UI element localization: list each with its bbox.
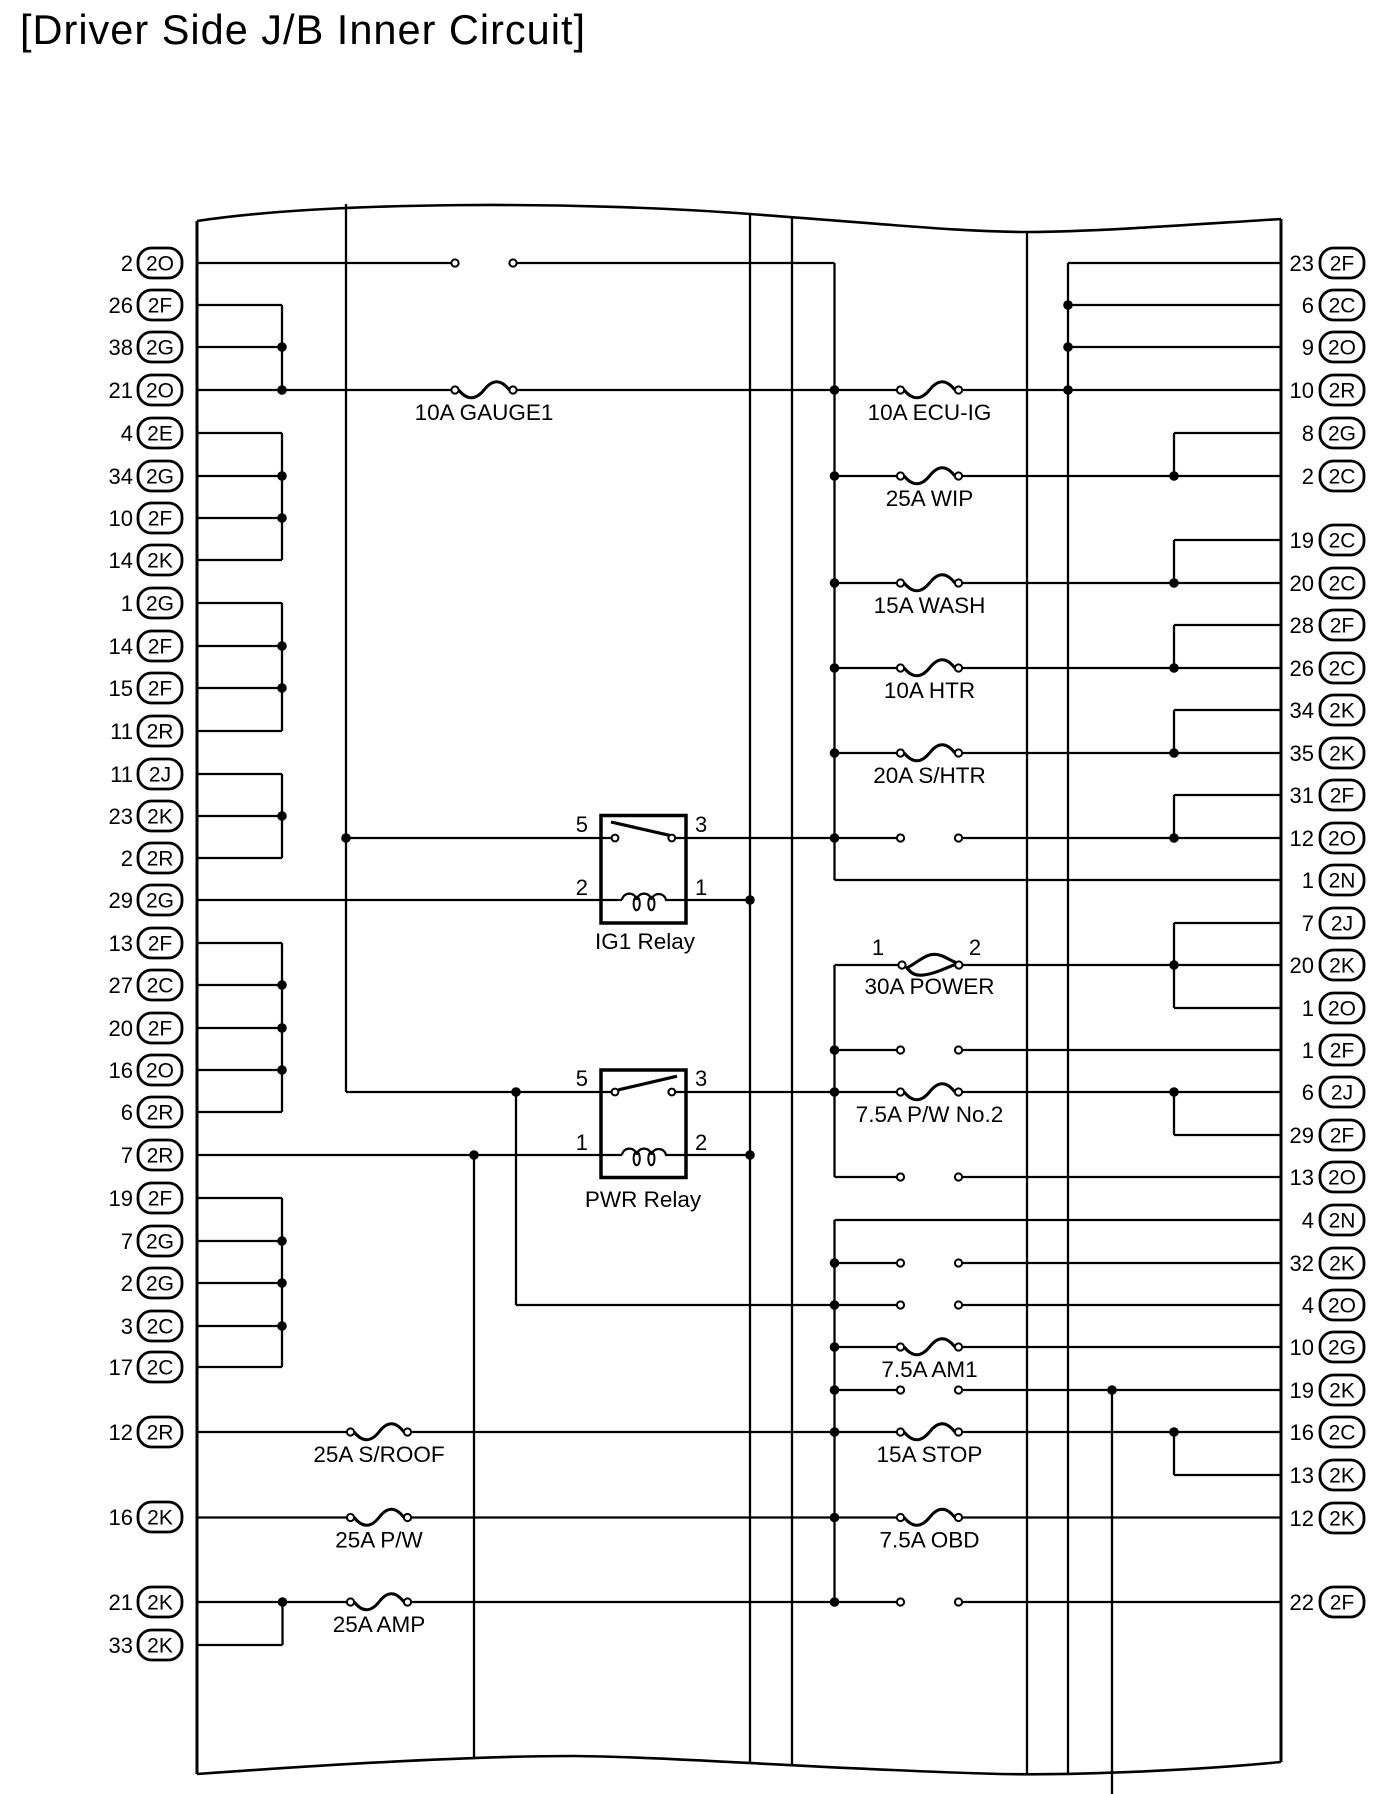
left group bracket 26-2F/38-2G/21-2O (197, 304, 282, 306)
pin 2 2G (left) (121, 1268, 182, 1298)
svg-text:2R: 2R (1329, 380, 1356, 403)
right bracket 7-2J/20-2K/1-2O (1174, 922, 1281, 924)
wire row 20A S/HTR (y753) (835, 752, 897, 754)
svg-text:2K: 2K (147, 1592, 173, 1615)
svg-text:14: 14 (109, 548, 133, 573)
pin 38 2G (left) (109, 332, 182, 362)
wire row 25A WIP (y476) (835, 475, 897, 477)
relay PWR: coil (601, 1154, 622, 1156)
svg-text:2: 2 (576, 875, 588, 900)
svg-text:2K: 2K (1329, 955, 1355, 978)
svg-text:2F: 2F (1330, 785, 1355, 808)
svg-text:1: 1 (121, 591, 133, 616)
svg-text:1: 1 (1302, 868, 1314, 893)
svg-text:2K: 2K (1329, 1508, 1355, 1531)
svg-text:19: 19 (1290, 1378, 1314, 1403)
pin 27 2C (left) (109, 970, 182, 1000)
left group bracket 21-2K/33-2K (197, 1644, 283, 1646)
pin 34 2K (right) (1290, 695, 1364, 725)
pin 2 2R (left) (121, 843, 182, 873)
pin 4 2E (left) (121, 418, 182, 448)
junction block J/B outline: right edge (1280, 219, 1283, 1762)
svg-text:2C: 2C (1329, 466, 1356, 489)
pin 29 2G (left) (109, 885, 182, 915)
wire row 4-2N (y1220) (835, 1219, 1282, 1221)
svg-text:2G: 2G (146, 337, 174, 360)
svg-text:12: 12 (109, 1420, 133, 1445)
svg-text:30A POWER: 30A POWER (864, 974, 994, 999)
vertical wire (x=516, PWR relay pin5 row down to 4 2O row) (515, 1092, 517, 1305)
svg-text:20: 20 (1290, 571, 1314, 596)
svg-text:1: 1 (695, 875, 707, 900)
pin 9 2O (right) (1302, 332, 1364, 362)
left group bracket 13-2F/27-2C/20-2F/16-2O/6-2R (197, 942, 282, 944)
pin 13 2K (right) (1290, 1460, 1364, 1490)
svg-text:2N: 2N (1329, 870, 1356, 893)
svg-text:2F: 2F (1330, 1125, 1355, 1148)
svg-text:2J: 2J (1331, 1082, 1353, 1105)
svg-text:34: 34 (109, 464, 133, 489)
svg-text:7: 7 (121, 1143, 133, 1168)
vertical bus line E (x=1068, pin 23 2F row to bottom edge) (1067, 263, 1069, 1774)
wire row pair to 1-2F (y1050) (835, 1049, 897, 1051)
svg-text:8: 8 (1302, 421, 1314, 446)
svg-text:16: 16 (109, 1505, 133, 1530)
svg-text:2R: 2R (147, 1422, 174, 1445)
svg-text:2K: 2K (147, 1635, 173, 1658)
right bracket 34-2K/35-2K (1174, 709, 1281, 711)
fuse 7.5A AM1 (y1347) (835, 1346, 897, 1348)
wire row 21-2K / 25A AMP / 22-2F (y1602) (197, 1601, 347, 1603)
pin 10 2G (right) (1290, 1332, 1364, 1362)
svg-text:16: 16 (1290, 1420, 1314, 1445)
svg-text:13: 13 (1290, 1463, 1314, 1488)
svg-text:13: 13 (1290, 1165, 1314, 1190)
svg-text:20A S/HTR: 20A S/HTR (873, 763, 986, 788)
pin 20 2K (right) (1290, 950, 1364, 980)
fuse 10A HTR (897, 664, 904, 671)
vertical wire (x=1112, 19 2K row down past bottom edge) (1111, 1390, 1113, 1794)
svg-text:4: 4 (1302, 1208, 1314, 1233)
vertical bus line F (x=834.5, 2 2O row to 1 2N row) (833, 263, 835, 880)
svg-text:14: 14 (109, 634, 133, 659)
svg-text:12: 12 (1290, 826, 1314, 851)
svg-text:31: 31 (1290, 783, 1314, 808)
svg-text:2K: 2K (147, 806, 173, 829)
svg-text:2F: 2F (1330, 253, 1355, 276)
svg-text:5: 5 (576, 812, 588, 837)
right bracket 28-2F/26-2C (1174, 624, 1281, 626)
pin 21 2O (left) (109, 375, 182, 405)
svg-text:38: 38 (109, 335, 133, 360)
svg-text:6: 6 (1302, 1080, 1314, 1105)
svg-text:2F: 2F (148, 1188, 173, 1211)
svg-text:2C: 2C (147, 1316, 174, 1339)
svg-text:2O: 2O (1328, 337, 1356, 360)
fuse 25A S/ROOF (347, 1428, 354, 1435)
svg-text:2F: 2F (148, 678, 173, 701)
pin 34 2G (left) (109, 461, 182, 491)
fuse 7.5A OBD (897, 1514, 904, 1521)
svg-text:25A AMP: 25A AMP (333, 1612, 426, 1637)
svg-text:2C: 2C (1329, 573, 1356, 596)
pin 13 2F (left) (109, 928, 182, 958)
wire row 4-2O (y1305) (516, 1304, 897, 1306)
svg-text:[Driver Side J/B Inner Circuit: [Driver Side J/B Inner Circuit] (20, 6, 586, 53)
svg-text:15: 15 (109, 676, 133, 701)
vertical bus line B (x=750, full height) (749, 214, 751, 1763)
pin 19 2K (right) (1290, 1375, 1364, 1405)
svg-text:2: 2 (121, 1271, 133, 1296)
wire GAUGE1 to ECU-IG (517, 389, 897, 391)
svg-text:2O: 2O (1328, 828, 1356, 851)
svg-text:IG1 Relay: IG1 Relay (595, 929, 696, 954)
wire row 2-2O (y263) with terminal pair (197, 262, 451, 264)
svg-text:2F: 2F (148, 508, 173, 531)
svg-text:25A S/ROOF: 25A S/ROOF (313, 1442, 444, 1467)
fuse 20A S/HTR (897, 749, 904, 756)
pin 1 2G (left) (121, 588, 182, 618)
pin 8 2G (right) (1302, 418, 1364, 448)
fuse 10A ECU-IG (897, 386, 904, 393)
svg-text:2G: 2G (1328, 423, 1356, 446)
pin 12 2O (right) (1290, 823, 1364, 853)
pin 11 2J (left) (110, 759, 182, 789)
pin 23 2F (right) (1290, 248, 1364, 278)
svg-text:10A HTR: 10A HTR (884, 678, 975, 703)
pin 6 2J (right) (1302, 1077, 1364, 1107)
pin 12 2K (right) (1290, 1503, 1364, 1533)
wire ECU-IG to pin 10 2R (962, 389, 1281, 391)
wire row pair to 32-2K (y1263) (835, 1262, 897, 1264)
pin 1 2N (right) (1302, 865, 1364, 895)
vertical bus line G (x=834.5, 30A POWER row to 13 2O row) (833, 965, 835, 1177)
right bracket 8-2G/2-2C (1174, 432, 1281, 434)
svg-text:10A GAUGE1: 10A GAUGE1 (415, 400, 554, 425)
pin 1 2O (right) (1302, 993, 1364, 1023)
pin 7 2J (right) (1302, 908, 1364, 938)
svg-text:2K: 2K (1329, 700, 1355, 723)
fuse 15A STOP (897, 1428, 904, 1435)
svg-text:2F: 2F (1330, 615, 1355, 638)
pin 13 2O (right) (1290, 1162, 1364, 1192)
svg-text:7.5A AM1: 7.5A AM1 (881, 1357, 977, 1382)
svg-text:26: 26 (1290, 656, 1314, 681)
svg-text:2F: 2F (148, 295, 173, 318)
vertical bus line H (x=834.5, 4 2N row to 22 2F row) (833, 1220, 835, 1602)
svg-text:11: 11 (110, 762, 133, 787)
svg-text:23: 23 (109, 804, 133, 829)
svg-text:34: 34 (1290, 698, 1314, 723)
svg-text:19: 19 (109, 1186, 133, 1211)
wire row 23-2F (y263) (1068, 262, 1281, 264)
svg-text:26: 26 (109, 293, 133, 318)
svg-text:2F: 2F (148, 1018, 173, 1041)
svg-text:2: 2 (1302, 464, 1314, 489)
svg-text:5: 5 (576, 1066, 588, 1091)
pin 17 2C (left) (109, 1352, 182, 1382)
svg-text:3: 3 (695, 1066, 707, 1091)
pin 28 2F (right) (1290, 610, 1364, 640)
svg-text:2C: 2C (1329, 295, 1356, 318)
svg-text:3: 3 (121, 1314, 133, 1339)
right bracket 16-2C/13-2K (1174, 1474, 1281, 1476)
svg-text:PWR Relay: PWR Relay (585, 1187, 702, 1212)
svg-text:2: 2 (121, 251, 133, 276)
pin 29 2F (right) (1290, 1120, 1364, 1150)
svg-text:13: 13 (109, 931, 133, 956)
pin 20 2C (right) (1290, 568, 1364, 598)
svg-text:2E: 2E (147, 423, 173, 446)
svg-text:2C: 2C (147, 975, 174, 998)
wire row 15A WASH (y583) (835, 582, 897, 584)
svg-text:29: 29 (109, 888, 133, 913)
wire row 29-2G to IG1 relay coil (y900) (197, 899, 601, 901)
svg-text:15A STOP: 15A STOP (877, 1442, 983, 1467)
wire row 16-2K / 25A P/W / 7.5A OBD (y1517.5) (197, 1516, 347, 1518)
pin 26 2C (right) (1290, 653, 1364, 683)
pin 26 2F (left) (109, 290, 182, 320)
wire row 9-2O (y347) (1068, 346, 1281, 348)
svg-text:15A WASH: 15A WASH (874, 593, 986, 618)
svg-text:2O: 2O (1328, 1167, 1356, 1190)
svg-text:2N: 2N (1329, 1210, 1356, 1233)
pin 32 2K (right) (1290, 1248, 1364, 1278)
svg-text:1: 1 (872, 935, 884, 960)
svg-text:19: 19 (1290, 528, 1314, 553)
wire row 12-2R / 25A S/ROOF / 15A STOP (y1432) (197, 1431, 347, 1433)
pin 12 2R (left) (109, 1417, 182, 1447)
pin 21 2K (left) (109, 1587, 182, 1617)
svg-text:2K: 2K (147, 550, 173, 573)
svg-text:2C: 2C (1329, 530, 1356, 553)
fuse 10A GAUGE1 (451, 386, 458, 393)
svg-text:2K: 2K (1329, 743, 1355, 766)
svg-text:2K: 2K (1329, 1380, 1355, 1403)
pin 20 2F (left) (109, 1013, 182, 1043)
pin 14 2F (left) (109, 631, 182, 661)
svg-text:2O: 2O (1328, 998, 1356, 1021)
pin 33 2K (left) (109, 1630, 182, 1660)
right bracket 19-2C/20-2C (1174, 539, 1281, 541)
svg-text:4: 4 (121, 421, 133, 446)
pin 23 2K (left) (109, 801, 182, 831)
pin 4 2O (right) (1302, 1290, 1364, 1320)
fuse 25A WIP (897, 472, 904, 479)
junction block J/B outline: wavy bottom edge (197, 1756, 1281, 1774)
svg-text:2O: 2O (146, 1060, 174, 1083)
relay IG1: switch contacts pin5-pin3 (612, 835, 619, 842)
svg-text:2G: 2G (146, 890, 174, 913)
svg-text:2: 2 (121, 846, 133, 871)
fuse 7.5A P/W No.2 (897, 1088, 904, 1095)
left group bracket 19-2F/7-2G/2-2G/3-2C/17-2C (197, 1197, 282, 1199)
pin 16 2K (left) (109, 1502, 182, 1532)
svg-text:23: 23 (1290, 251, 1314, 276)
svg-text:6: 6 (1302, 293, 1314, 318)
fuse 25A AMP (347, 1598, 354, 1605)
wire row 10A HTR (y668) (835, 667, 897, 669)
pin 19 2F (left) (109, 1183, 182, 1213)
svg-text:2R: 2R (147, 848, 174, 871)
svg-text:2R: 2R (147, 1145, 174, 1168)
left group bracket 11-2J/23-2K/2-2R (197, 773, 282, 775)
pin 6 2C (right) (1302, 290, 1364, 320)
fuse 15A WASH (897, 579, 904, 586)
svg-text:2G: 2G (146, 1231, 174, 1254)
svg-text:22: 22 (1290, 1590, 1314, 1615)
svg-text:10: 10 (1290, 1335, 1314, 1360)
svg-text:2O: 2O (146, 253, 174, 276)
wire row IG1 relay switch (y838) (346, 837, 612, 839)
svg-text:7: 7 (121, 1229, 133, 1254)
svg-text:16: 16 (109, 1058, 133, 1083)
relay PWR: box (601, 1070, 686, 1178)
svg-text:28: 28 (1290, 613, 1314, 638)
pin 2 2O (left) (121, 248, 182, 278)
svg-text:27: 27 (109, 973, 133, 998)
svg-text:17: 17 (109, 1355, 133, 1380)
junction block J/B outline: wavy top edge (197, 205, 1281, 232)
svg-text:2G: 2G (146, 466, 174, 489)
svg-text:7.5A OBD: 7.5A OBD (879, 1528, 979, 1553)
svg-text:35: 35 (1290, 741, 1314, 766)
svg-text:33: 33 (109, 1633, 133, 1658)
svg-text:2F: 2F (1330, 1040, 1355, 1063)
junction block J/B outline: left edge (196, 221, 199, 1774)
svg-text:9: 9 (1302, 335, 1314, 360)
pin 6 2R (left) (121, 1097, 182, 1127)
svg-text:2C: 2C (147, 1357, 174, 1380)
svg-text:2J: 2J (149, 764, 171, 787)
svg-text:1: 1 (1302, 1038, 1314, 1063)
svg-text:2G: 2G (146, 593, 174, 616)
pin 10 2F (left) (109, 503, 182, 533)
pin 35 2K (right) (1290, 738, 1364, 768)
wire row 1-2N (y880) (835, 879, 1282, 881)
svg-text:2G: 2G (146, 1273, 174, 1296)
wire row 6-2C (y305) (1068, 304, 1281, 306)
svg-text:2G: 2G (1328, 1337, 1356, 1360)
svg-text:3: 3 (695, 812, 707, 837)
right bracket 6-2J/29-2F (1174, 1134, 1281, 1136)
wire row pair to 19-2K (y1390) (835, 1389, 897, 1391)
fuse 30A POWER (fusible link) (835, 964, 899, 966)
svg-text:2K: 2K (1329, 1465, 1355, 1488)
svg-text:29: 29 (1290, 1123, 1314, 1148)
wire row pair to 13-2O (y1177) (835, 1176, 897, 1178)
wire row 10A GAUGE1 / 10A ECU-IG (y390) (197, 389, 451, 391)
pin 31 2F (right) (1290, 780, 1364, 810)
pin 11 2R (left) (110, 716, 182, 746)
pin 2 2C (right) (1302, 461, 1364, 491)
svg-text:2J: 2J (1331, 913, 1353, 936)
pin 19 2C (right) (1290, 525, 1364, 555)
vertical wire (x=474, 7 2R row down to bottom edge) (473, 1155, 475, 1758)
pin 7 2G (left) (121, 1226, 182, 1256)
svg-text:2O: 2O (146, 380, 174, 403)
wire row PWR relay switch / fuse 7.5A P/W No.2 (y1092) (346, 1091, 612, 1093)
svg-text:2C: 2C (1329, 658, 1356, 681)
svg-text:2K: 2K (147, 1507, 173, 1530)
relay IG1: box (601, 816, 686, 924)
pin 10 2R (right) (1290, 375, 1364, 405)
svg-text:2F: 2F (148, 636, 173, 659)
svg-text:10: 10 (1290, 378, 1314, 403)
right bracket 31-2F/12-2O (1174, 794, 1281, 796)
pin 15 2F (left) (109, 673, 182, 703)
svg-text:2R: 2R (147, 721, 174, 744)
svg-text:32: 32 (1290, 1251, 1314, 1276)
svg-text:2O: 2O (1328, 1295, 1356, 1318)
fuse 25A P/W (347, 1514, 354, 1521)
svg-text:2K: 2K (1329, 1253, 1355, 1276)
svg-text:2R: 2R (147, 1102, 174, 1125)
svg-text:7: 7 (1302, 911, 1314, 936)
svg-text:11: 11 (110, 719, 133, 744)
pin 22 2F (right) (1290, 1587, 1364, 1617)
svg-text:21: 21 (109, 1590, 133, 1615)
svg-text:12: 12 (1290, 1506, 1314, 1531)
wire row 7-2R to PWR relay coil (y1155) (197, 1154, 601, 1156)
svg-text:2F: 2F (1330, 1592, 1355, 1615)
pin 3 2C (left) (121, 1311, 182, 1341)
svg-text:2F: 2F (148, 933, 173, 956)
pin 7 2R (left) (121, 1140, 182, 1170)
svg-text:1: 1 (1302, 996, 1314, 1021)
pin 4 2N (right) (1302, 1205, 1364, 1235)
vertical bus line C (x=792, full height) (791, 217, 793, 1766)
svg-text:2: 2 (969, 935, 981, 960)
svg-text:1: 1 (576, 1130, 588, 1155)
svg-text:2: 2 (695, 1130, 707, 1155)
pin 14 2K (left) (109, 545, 182, 575)
svg-text:10A ECU-IG: 10A ECU-IG (868, 400, 992, 425)
svg-text:10: 10 (109, 506, 133, 531)
pin 16 2C (right) (1290, 1417, 1364, 1447)
svg-text:25A P/W: 25A P/W (335, 1528, 423, 1553)
relay PWR: switch contacts pin5-pin3 (612, 1089, 619, 1096)
svg-text:20: 20 (1290, 953, 1314, 978)
svg-text:21: 21 (109, 378, 133, 403)
svg-text:6: 6 (121, 1100, 133, 1125)
relay IG1: coil (601, 899, 622, 901)
svg-text:4: 4 (1302, 1293, 1314, 1318)
pin 1 2F (right) (1302, 1035, 1364, 1065)
svg-text:20: 20 (109, 1016, 133, 1041)
left group bracket 1-2G/14-2F/15-2F/11-2R (197, 602, 282, 604)
svg-text:7.5A P/W No.2: 7.5A P/W No.2 (856, 1102, 1004, 1127)
vertical bus line A (x=346, top edge to PWR relay row) (345, 204, 347, 1092)
left group bracket 4-2E/34-2G/10-2F/14-2K (197, 432, 282, 434)
svg-text:25A WIP: 25A WIP (886, 486, 974, 511)
svg-text:2C: 2C (1329, 1422, 1356, 1445)
vertical bus line D (x=1027, full height) (1026, 231, 1028, 1774)
pin 16 2O (left) (109, 1055, 182, 1085)
